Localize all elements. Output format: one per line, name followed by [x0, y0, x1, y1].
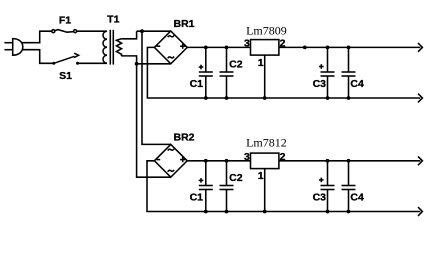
svg-text:2: 2 — [280, 38, 286, 50]
svg-text:BR2: BR2 — [173, 131, 194, 143]
svg-text:C2: C2 — [229, 172, 243, 184]
svg-text:C4: C4 — [350, 191, 364, 203]
svg-text:2: 2 — [280, 151, 286, 163]
svg-text:1: 1 — [258, 57, 264, 69]
svg-text:T1: T1 — [107, 14, 119, 26]
svg-text:1: 1 — [258, 170, 264, 182]
svg-text:3: 3 — [244, 151, 250, 163]
svg-text:C3: C3 — [313, 78, 327, 90]
svg-text:3: 3 — [244, 38, 250, 50]
svg-text:C1: C1 — [190, 78, 204, 90]
svg-text:BR1: BR1 — [173, 18, 194, 30]
svg-text:S1: S1 — [59, 70, 72, 82]
svg-text:Lm7812: Lm7812 — [246, 136, 287, 150]
svg-text:C3: C3 — [313, 191, 327, 203]
svg-text:C1: C1 — [190, 191, 204, 203]
svg-text:F1: F1 — [59, 15, 71, 27]
svg-text:C2: C2 — [229, 59, 243, 71]
svg-text:C4: C4 — [350, 78, 364, 90]
svg-text:Lm7809: Lm7809 — [246, 23, 287, 37]
